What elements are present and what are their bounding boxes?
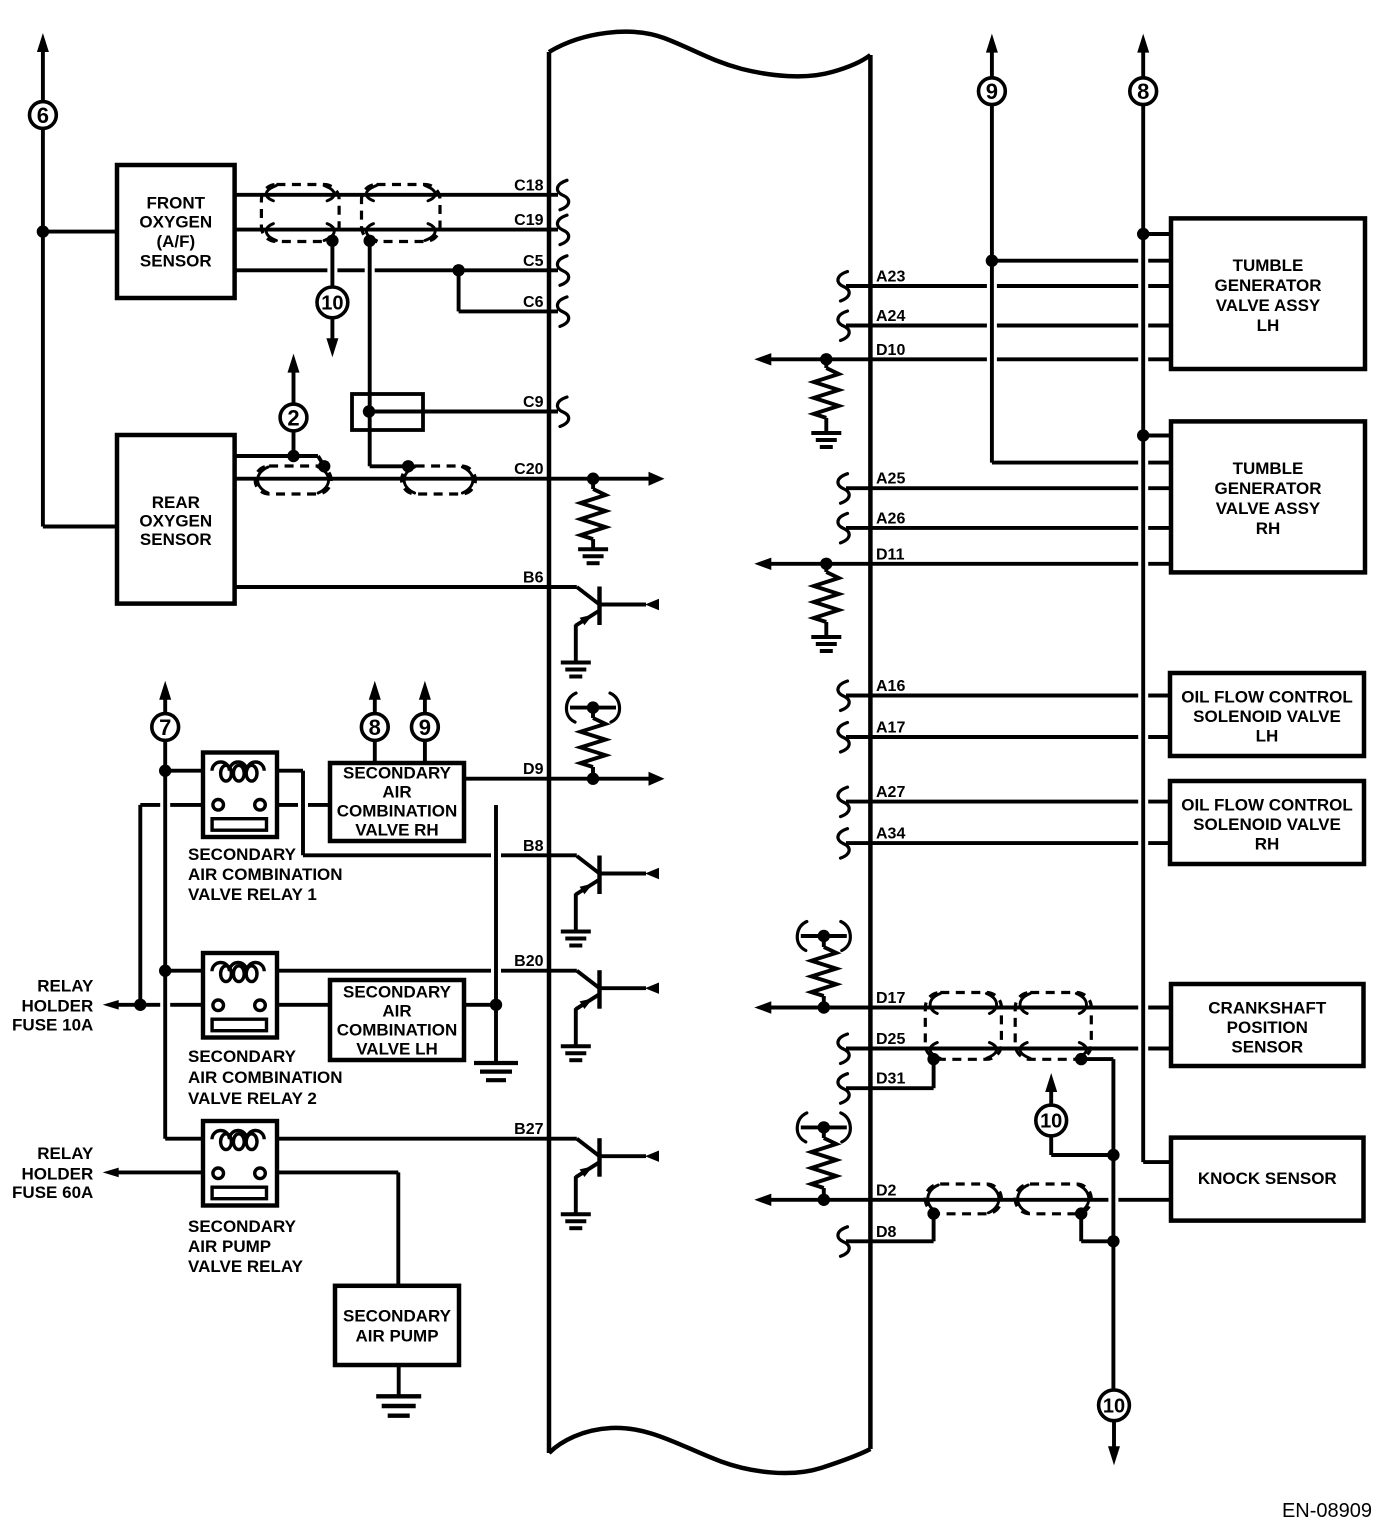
- svg-text:OXYGEN: OXYGEN: [139, 511, 212, 530]
- svg-text:9: 9: [986, 79, 998, 104]
- svg-text:A34: A34: [876, 826, 905, 843]
- svg-text:D31: D31: [876, 1071, 905, 1088]
- svg-text:VALVE LH: VALVE LH: [356, 1039, 438, 1058]
- svg-text:A17: A17: [876, 720, 905, 737]
- svg-text:SOLENOID VALVE: SOLENOID VALVE: [1193, 707, 1341, 726]
- svg-text:7: 7: [159, 715, 171, 740]
- svg-text:C6: C6: [523, 294, 544, 311]
- svg-text:OXYGEN: OXYGEN: [139, 213, 212, 232]
- svg-text:OIL FLOW CONTROL: OIL FLOW CONTROL: [1181, 688, 1353, 707]
- svg-text:C18: C18: [514, 177, 543, 194]
- svg-text:AIR: AIR: [382, 782, 411, 801]
- svg-text:2: 2: [287, 405, 299, 430]
- svg-text:C20: C20: [514, 461, 543, 478]
- svg-text:D8: D8: [876, 1224, 897, 1241]
- svg-text:VALVE RELAY 2: VALVE RELAY 2: [188, 1089, 317, 1108]
- svg-text:EN-08909: EN-08909: [1282, 1500, 1372, 1522]
- svg-text:C19: C19: [514, 212, 543, 229]
- svg-text:9: 9: [419, 715, 431, 740]
- svg-text:TUMBLE: TUMBLE: [1233, 256, 1304, 275]
- svg-text:GENERATOR: GENERATOR: [1214, 479, 1321, 498]
- svg-text:10: 10: [1103, 1396, 1125, 1418]
- svg-text:VALVE RELAY 1: VALVE RELAY 1: [188, 885, 317, 904]
- svg-text:C9: C9: [523, 394, 544, 411]
- svg-text:SENSOR: SENSOR: [140, 251, 212, 270]
- svg-text:LH: LH: [1256, 727, 1279, 746]
- svg-text:FUSE 10A: FUSE 10A: [12, 1015, 93, 1034]
- svg-text:8: 8: [369, 715, 381, 740]
- svg-text:D9: D9: [523, 761, 544, 778]
- svg-text:B27: B27: [514, 1121, 543, 1138]
- svg-text:REAR: REAR: [152, 493, 200, 512]
- svg-text:TUMBLE: TUMBLE: [1233, 459, 1304, 478]
- svg-text:AIR PUMP: AIR PUMP: [355, 1326, 438, 1345]
- svg-text:RELAY: RELAY: [37, 1144, 94, 1163]
- svg-text:VALVE ASSY: VALVE ASSY: [1216, 499, 1321, 518]
- svg-text:CRANKSHAFT: CRANKSHAFT: [1208, 999, 1327, 1018]
- svg-text:6: 6: [37, 103, 49, 128]
- svg-text:AIR: AIR: [382, 1001, 411, 1020]
- svg-text:RELAY: RELAY: [37, 977, 94, 996]
- svg-text:D11: D11: [876, 546, 905, 563]
- svg-text:AIR PUMP: AIR PUMP: [188, 1237, 271, 1256]
- svg-text:RH: RH: [1256, 519, 1281, 538]
- svg-text:10: 10: [1040, 1111, 1062, 1133]
- svg-text:B8: B8: [523, 838, 544, 855]
- svg-text:VALVE RELAY: VALVE RELAY: [188, 1257, 304, 1276]
- svg-text:D2: D2: [876, 1182, 897, 1199]
- svg-text:LH: LH: [1257, 316, 1280, 335]
- svg-text:A16: A16: [876, 678, 905, 695]
- svg-text:SECONDARY: SECONDARY: [188, 845, 297, 864]
- svg-text:HOLDER: HOLDER: [22, 997, 94, 1016]
- svg-text:SECONDARY: SECONDARY: [343, 982, 452, 1001]
- svg-text:B20: B20: [514, 953, 543, 970]
- svg-text:SECONDARY: SECONDARY: [188, 1217, 297, 1236]
- svg-text:COMBINATION: COMBINATION: [337, 801, 458, 820]
- svg-text:D10: D10: [876, 342, 905, 359]
- svg-text:COMBINATION: COMBINATION: [337, 1020, 458, 1039]
- svg-text:SOLENOID VALVE: SOLENOID VALVE: [1193, 815, 1341, 834]
- svg-text:C5: C5: [523, 253, 544, 270]
- svg-text:AIR COMBINATION: AIR COMBINATION: [188, 1068, 343, 1087]
- svg-text:FUSE 60A: FUSE 60A: [12, 1183, 93, 1202]
- svg-text:(A/F): (A/F): [156, 232, 195, 251]
- svg-text:A23: A23: [876, 269, 905, 286]
- svg-text:OIL FLOW CONTROL: OIL FLOW CONTROL: [1181, 796, 1353, 815]
- svg-text:GENERATOR: GENERATOR: [1214, 276, 1321, 295]
- svg-text:VALVE ASSY: VALVE ASSY: [1216, 296, 1321, 315]
- svg-text:SENSOR: SENSOR: [1231, 1038, 1303, 1057]
- svg-text:SENSOR: SENSOR: [140, 530, 212, 549]
- svg-text:A25: A25: [876, 471, 905, 488]
- svg-text:VALVE RH: VALVE RH: [355, 820, 438, 839]
- svg-text:B6: B6: [523, 570, 544, 587]
- svg-text:POSITION: POSITION: [1227, 1018, 1308, 1037]
- svg-text:D17: D17: [876, 990, 905, 1007]
- svg-text:A26: A26: [876, 510, 905, 527]
- svg-text:AIR COMBINATION: AIR COMBINATION: [188, 865, 343, 884]
- svg-text:SECONDARY: SECONDARY: [343, 1306, 452, 1325]
- svg-text:A24: A24: [876, 308, 905, 325]
- svg-text:A27: A27: [876, 784, 905, 801]
- svg-text:10: 10: [321, 293, 343, 315]
- svg-text:SECONDARY: SECONDARY: [343, 763, 452, 782]
- svg-text:8: 8: [1137, 79, 1149, 104]
- svg-text:D25: D25: [876, 1031, 905, 1048]
- svg-text:RH: RH: [1255, 835, 1280, 854]
- svg-text:HOLDER: HOLDER: [22, 1164, 94, 1183]
- svg-text:FRONT: FRONT: [147, 193, 206, 212]
- svg-text:SECONDARY: SECONDARY: [188, 1047, 297, 1066]
- svg-text:KNOCK SENSOR: KNOCK SENSOR: [1198, 1169, 1337, 1188]
